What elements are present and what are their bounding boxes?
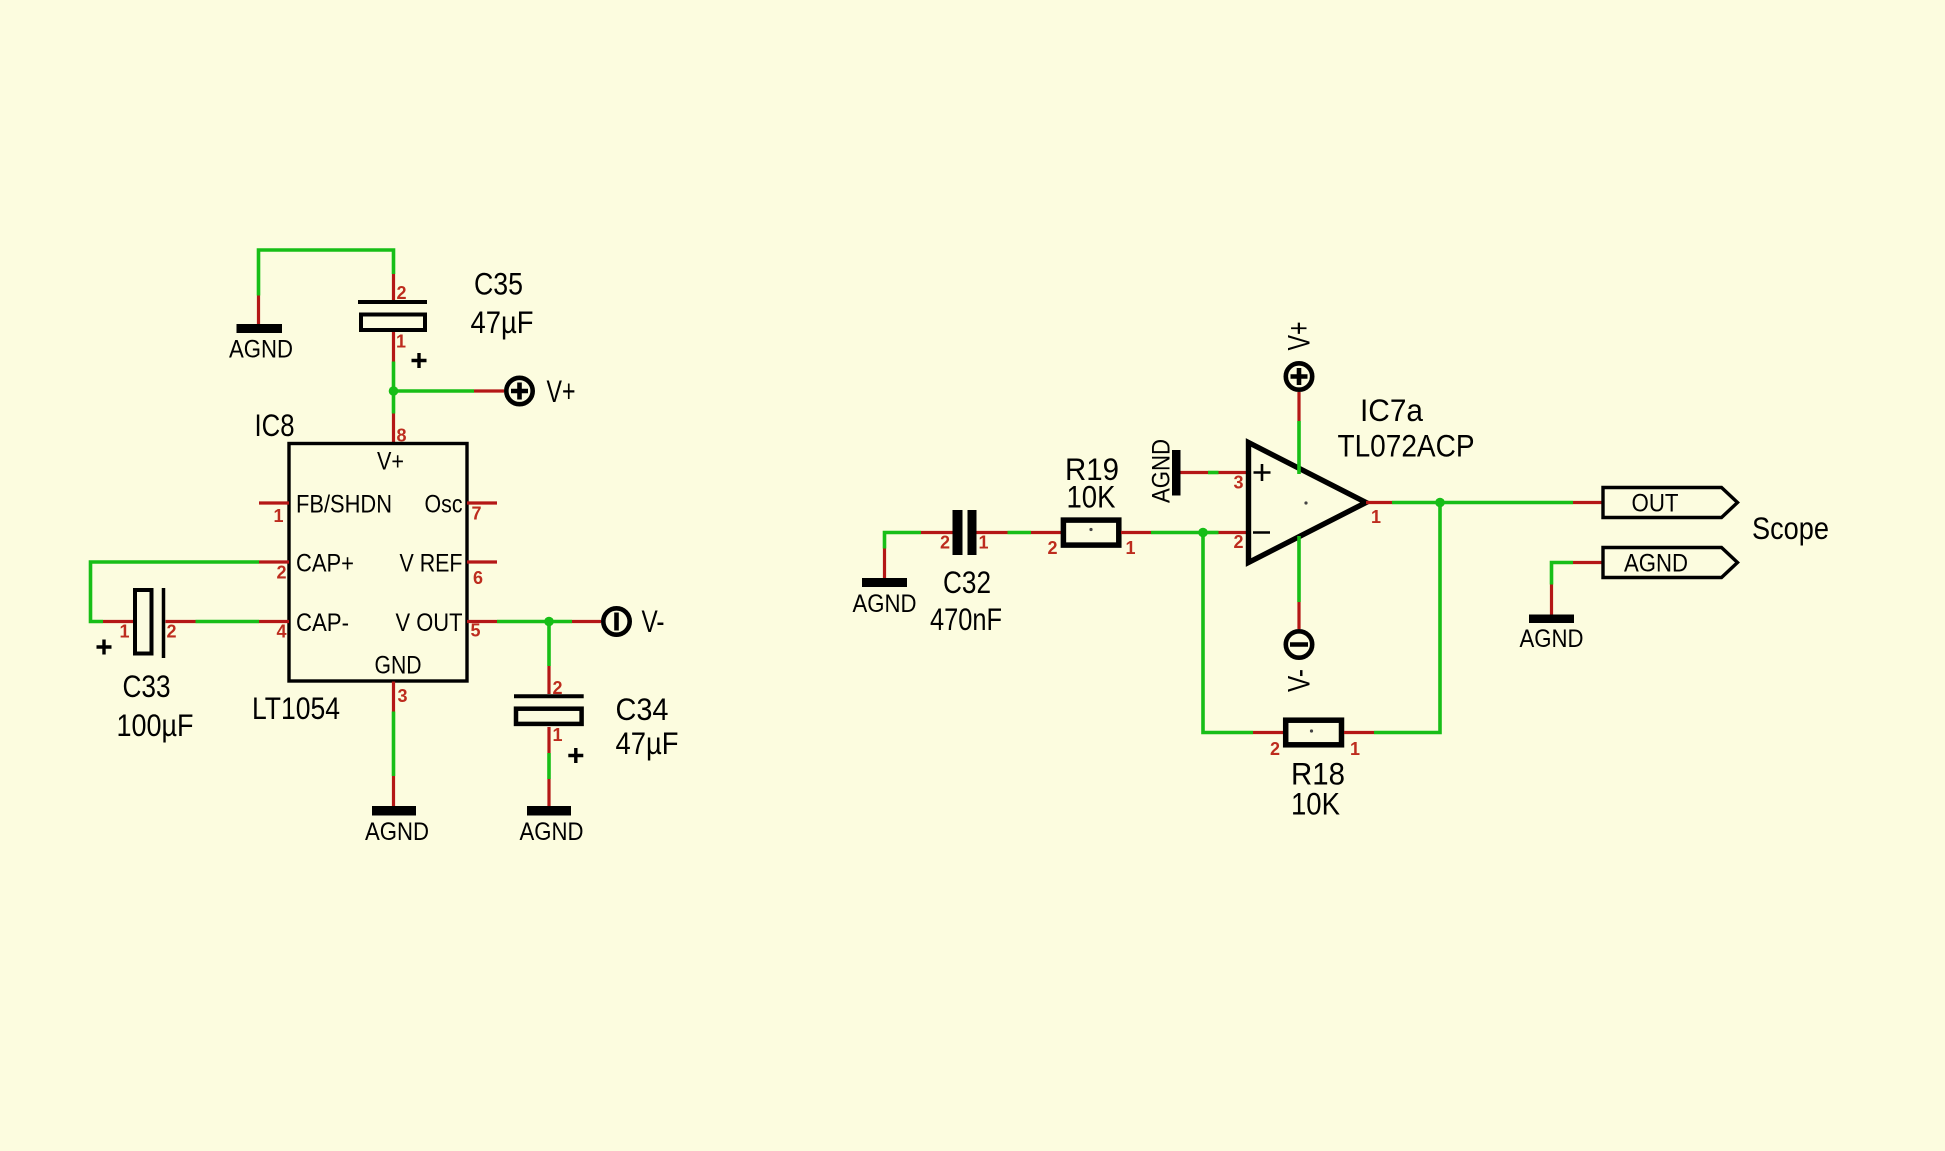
op-amp IC7a TL072ACP: [1249, 392, 1475, 563]
IC7a pin 2 inverting stub: [1219, 531, 1247, 534]
wire net AGND to C35 pin2: [259, 250, 394, 296]
svg-text:IC7a: IC7a: [1360, 392, 1423, 428]
svg-text:Scope: Scope: [1752, 510, 1829, 546]
svg-text:47µF: 47µF: [471, 304, 534, 340]
IC7a pin 1 output stub: [1366, 501, 1392, 504]
svg-text:1: 1: [119, 622, 129, 642]
IC7a pin 3 non-inverting stub: [1219, 471, 1247, 474]
svg-text:1: 1: [1350, 739, 1360, 759]
power V- (left): [572, 603, 665, 639]
wire V OUT to junction: [497, 620, 549, 624]
svg-text:AGND: AGND: [1148, 439, 1176, 503]
power V+ (left): [474, 373, 576, 409]
wire junction to OUT connector: [1440, 501, 1573, 505]
capacitor C33: [97, 588, 196, 743]
svg-text:2: 2: [276, 563, 286, 583]
svg-text:1: 1: [273, 506, 283, 526]
svg-text:2: 2: [553, 678, 563, 698]
svg-text:10K: 10K: [1067, 479, 1116, 515]
svg-text:3: 3: [398, 686, 408, 706]
svg-text:AGND: AGND: [853, 590, 917, 618]
ground AGND (input): [853, 549, 917, 619]
power V- (below op-amp): [1281, 602, 1317, 692]
svg-text:1: 1: [1126, 538, 1136, 558]
wire junction to IC8 pin8: [392, 391, 396, 414]
svg-text:CAP+: CAP+: [296, 550, 354, 578]
IC8 pin 1 FB/SHDN stub: [259, 501, 289, 504]
wire C35 pin1 to junction: [392, 362, 396, 392]
svg-text:5: 5: [471, 621, 481, 641]
svg-text:TL072ACP: TL072ACP: [1338, 428, 1475, 464]
wire junction to C34: [547, 622, 551, 667]
wire input net to C32: [885, 533, 922, 549]
wire CAP+ to C33: [91, 562, 260, 622]
wire C32 to R19: [1008, 531, 1032, 535]
node junction V- net: [544, 617, 554, 627]
svg-text:7: 7: [472, 504, 482, 524]
svg-text:2: 2: [940, 533, 950, 553]
ground AGND (rotated, at + input): [1148, 439, 1209, 503]
IC8 pin 2 CAP+ stub: [259, 560, 289, 563]
RIGHT-CIRCUIT: [853, 322, 1830, 822]
svg-text:6: 6: [473, 568, 483, 588]
capacitor C35: [358, 266, 534, 369]
svg-text:Osc: Osc: [425, 491, 463, 519]
svg-text:C32: C32: [943, 564, 991, 600]
wire R19 to inverting input junction: [1151, 531, 1203, 535]
wire AGND to + input: [1208, 471, 1219, 475]
wire C33 pin2 to CAP-: [196, 620, 260, 624]
svg-text:AGND: AGND: [365, 818, 429, 846]
wire output to junction: [1392, 501, 1440, 505]
wire R18 to output junction: [1374, 503, 1440, 733]
capacitor C34: [514, 666, 679, 763]
wire V- to op-amp power pin: [1297, 536, 1301, 602]
svg-text:V+: V+: [377, 448, 404, 476]
svg-text:470nF: 470nF: [930, 601, 1002, 637]
svg-text:V REF: V REF: [400, 550, 463, 578]
wire AGND net to connector: [1552, 563, 1574, 585]
ground AGND (under IC8): [365, 776, 429, 846]
svg-text:AGND: AGND: [520, 818, 584, 846]
connector OUT: [1573, 488, 1738, 518]
wire C34 pin1 to AGND: [547, 753, 551, 779]
IC8 pin 7 Osc stub: [467, 501, 497, 504]
svg-text:2: 2: [1270, 739, 1280, 759]
ground AGND (under C34): [520, 779, 584, 846]
svg-text:C33: C33: [123, 668, 171, 704]
svg-text:2: 2: [397, 283, 407, 303]
IC8 pin 5 V OUT stub: [467, 620, 497, 623]
svg-text:C34: C34: [616, 691, 669, 727]
op IC8 LT1054 box: [289, 444, 467, 682]
svg-text:GND: GND: [375, 652, 422, 680]
connector AGND: [1573, 548, 1738, 578]
svg-text:1: 1: [396, 332, 406, 352]
svg-text:1: 1: [1371, 507, 1381, 527]
wire junction to V+ symbol: [394, 389, 475, 393]
svg-text:47µF: 47µF: [616, 725, 679, 761]
wire V+ to op-amp power pin: [1297, 421, 1301, 474]
svg-text:FB/SHDN: FB/SHDN: [296, 491, 392, 519]
capacitor C32: [921, 510, 1008, 637]
wire feedback net: [1203, 533, 1253, 733]
wire junction to V- symbol: [549, 620, 572, 624]
svg-text:4: 4: [276, 622, 286, 642]
svg-text:2: 2: [167, 622, 177, 642]
svg-text:1: 1: [553, 725, 563, 745]
svg-text:AGND: AGND: [229, 336, 293, 364]
node junction inverting input: [1198, 528, 1208, 538]
svg-text:V-: V-: [1281, 669, 1317, 692]
wire junction to op-amp: [1203, 531, 1219, 535]
svg-text:C35: C35: [474, 266, 523, 302]
LEFT-CIRCUIT: [91, 250, 679, 846]
svg-text:CAP-: CAP-: [296, 609, 349, 637]
IC8 pin 3 GND stub: [392, 682, 395, 712]
svg-text:V+: V+: [547, 373, 576, 409]
svg-text:V+: V+: [1281, 322, 1317, 351]
svg-text:AGND: AGND: [1624, 550, 1688, 578]
svg-text:10K: 10K: [1291, 786, 1340, 822]
svg-text:1: 1: [979, 533, 989, 553]
svg-text:OUT: OUT: [1632, 490, 1679, 518]
svg-text:100µF: 100µF: [117, 707, 194, 743]
svg-text:AGND: AGND: [1520, 625, 1584, 653]
svg-text:3: 3: [1233, 473, 1243, 493]
svg-text:2: 2: [1047, 538, 1057, 558]
svg-text:2: 2: [1233, 532, 1243, 552]
svg-text:V OUT: V OUT: [396, 609, 463, 637]
svg-text:LT1054: LT1054: [252, 690, 340, 726]
resistor R18 10K: [1253, 720, 1374, 821]
IC8 pin 4 CAP- stub: [259, 620, 289, 623]
svg-text:IC8: IC8: [255, 407, 295, 443]
IC8 pin 8: [392, 414, 395, 444]
ground AGND (scope): [1520, 585, 1584, 654]
wire GND pin to AGND: [392, 712, 396, 777]
svg-text:V-: V-: [642, 603, 665, 639]
power V+ (above op-amp): [1281, 322, 1317, 422]
IC8 pin 6 V REF stub: [467, 560, 497, 563]
node junction V+ net: [389, 386, 399, 396]
node junction output: [1435, 498, 1445, 508]
ground AGND (top left): [229, 296, 293, 364]
resistor R19 10K: [1031, 451, 1151, 558]
